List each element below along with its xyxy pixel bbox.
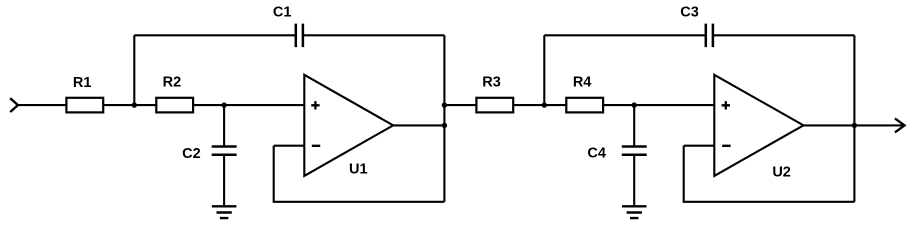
svg-text:C2: C2 bbox=[182, 146, 201, 162]
svg-text:U1: U1 bbox=[349, 162, 368, 178]
svg-text:C3: C3 bbox=[680, 4, 699, 20]
svg-text:C4: C4 bbox=[587, 146, 606, 162]
svg-text:C1: C1 bbox=[273, 4, 292, 20]
svg-text:U2: U2 bbox=[772, 165, 791, 181]
svg-text:R3: R3 bbox=[482, 74, 501, 90]
svg-text:R1: R1 bbox=[73, 75, 92, 91]
svg-text:R4: R4 bbox=[573, 74, 592, 90]
svg-text:R2: R2 bbox=[163, 75, 182, 91]
